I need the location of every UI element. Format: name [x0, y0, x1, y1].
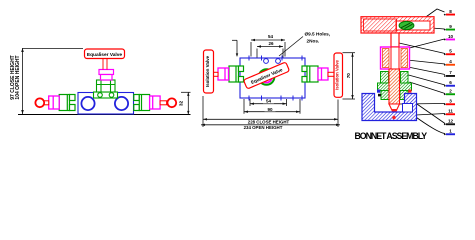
- svg-text:6: 6: [449, 80, 452, 85]
- svg-text:Isolation Valve: Isolation Valve: [205, 55, 210, 87]
- svg-text:234 OPEN HEIGHT: 234 OPEN HEIGHT: [244, 125, 283, 130]
- svg-text:Ø9.5 Holes,: Ø9.5 Holes,: [305, 32, 331, 37]
- svg-text:5: 5: [449, 49, 452, 54]
- svg-text:BONNET ASSEMBLY: BONNET ASSEMBLY: [355, 131, 428, 141]
- svg-text:8: 8: [449, 9, 452, 14]
- svg-text:90: 90: [267, 107, 273, 112]
- svg-text:104 OPEN HEIGHT: 104 OPEN HEIGHT: [15, 55, 21, 99]
- svg-text:Isolation Valve: Isolation Valve: [334, 59, 339, 89]
- svg-text:2Nos.: 2Nos.: [307, 39, 320, 44]
- svg-text:228 CLOSE HEIGHT: 228 CLOSE HEIGHT: [248, 119, 290, 124]
- svg-text:70: 70: [346, 73, 351, 79]
- svg-text:9: 9: [449, 24, 452, 29]
- svg-text:54: 54: [268, 34, 274, 39]
- svg-text:3: 3: [449, 99, 452, 104]
- svg-text:4: 4: [449, 59, 452, 64]
- svg-text:7: 7: [449, 70, 452, 75]
- svg-text:10: 10: [448, 34, 454, 39]
- svg-text:12: 12: [448, 119, 454, 124]
- svg-text:Equaliser Valve: Equaliser Valve: [87, 52, 123, 58]
- svg-text:54: 54: [266, 99, 272, 104]
- svg-text:26: 26: [268, 41, 274, 46]
- svg-text:11: 11: [448, 109, 453, 114]
- svg-text:32: 32: [178, 101, 184, 107]
- svg-text:2: 2: [449, 89, 452, 94]
- svg-text:1: 1: [449, 129, 452, 134]
